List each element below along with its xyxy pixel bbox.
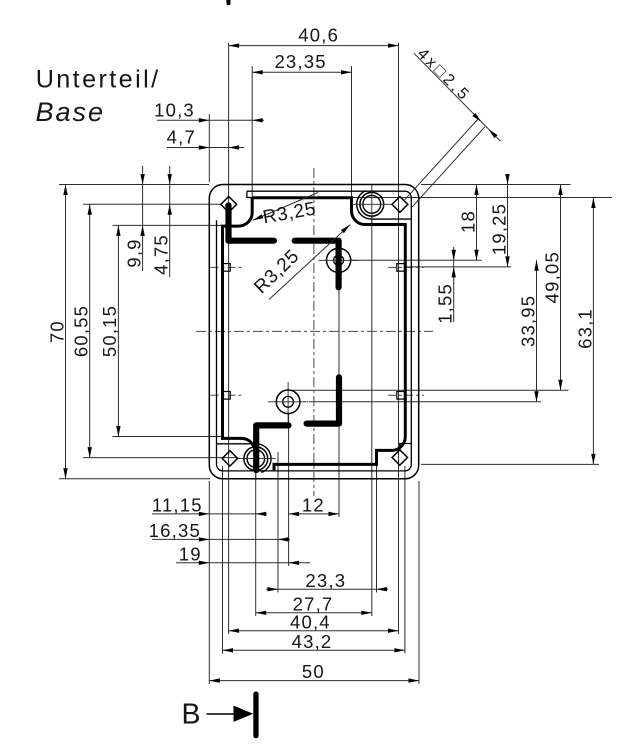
svg-text:Base: Base	[36, 97, 106, 127]
svg-text:1,55: 1,55	[435, 283, 456, 324]
svg-text:4,75: 4,75	[151, 234, 172, 275]
svg-text:10,3: 10,3	[154, 100, 195, 121]
svg-text:12: 12	[302, 495, 325, 516]
svg-text:16,35: 16,35	[149, 520, 201, 541]
svg-text:R3,25: R3,25	[261, 198, 318, 228]
svg-text:B: B	[182, 699, 202, 731]
svg-text:50,15: 50,15	[99, 305, 120, 357]
svg-text:9,9: 9,9	[123, 238, 144, 267]
svg-text:50: 50	[302, 661, 325, 682]
svg-text:18: 18	[457, 210, 478, 233]
svg-text:23,3: 23,3	[305, 570, 346, 591]
svg-text:40,4: 40,4	[290, 611, 331, 632]
svg-text:60,55: 60,55	[71, 305, 92, 357]
svg-text:40,6: 40,6	[298, 24, 339, 45]
svg-text:Unterteil/: Unterteil/	[36, 65, 161, 93]
svg-text:70: 70	[47, 320, 68, 343]
svg-text:63,1: 63,1	[575, 308, 596, 349]
svg-text:R3,25: R3,25	[250, 246, 303, 298]
svg-text:23,35: 23,35	[274, 51, 326, 72]
svg-text:4x□2,5: 4x□2,5	[414, 45, 474, 105]
svg-text:19,25: 19,25	[488, 203, 509, 255]
svg-text:49,05: 49,05	[541, 251, 562, 303]
svg-text:33,95: 33,95	[517, 295, 538, 347]
svg-text:19: 19	[179, 543, 202, 564]
svg-text:4,7: 4,7	[167, 126, 196, 147]
svg-text:43,2: 43,2	[292, 631, 333, 652]
svg-text:11,15: 11,15	[152, 495, 203, 516]
